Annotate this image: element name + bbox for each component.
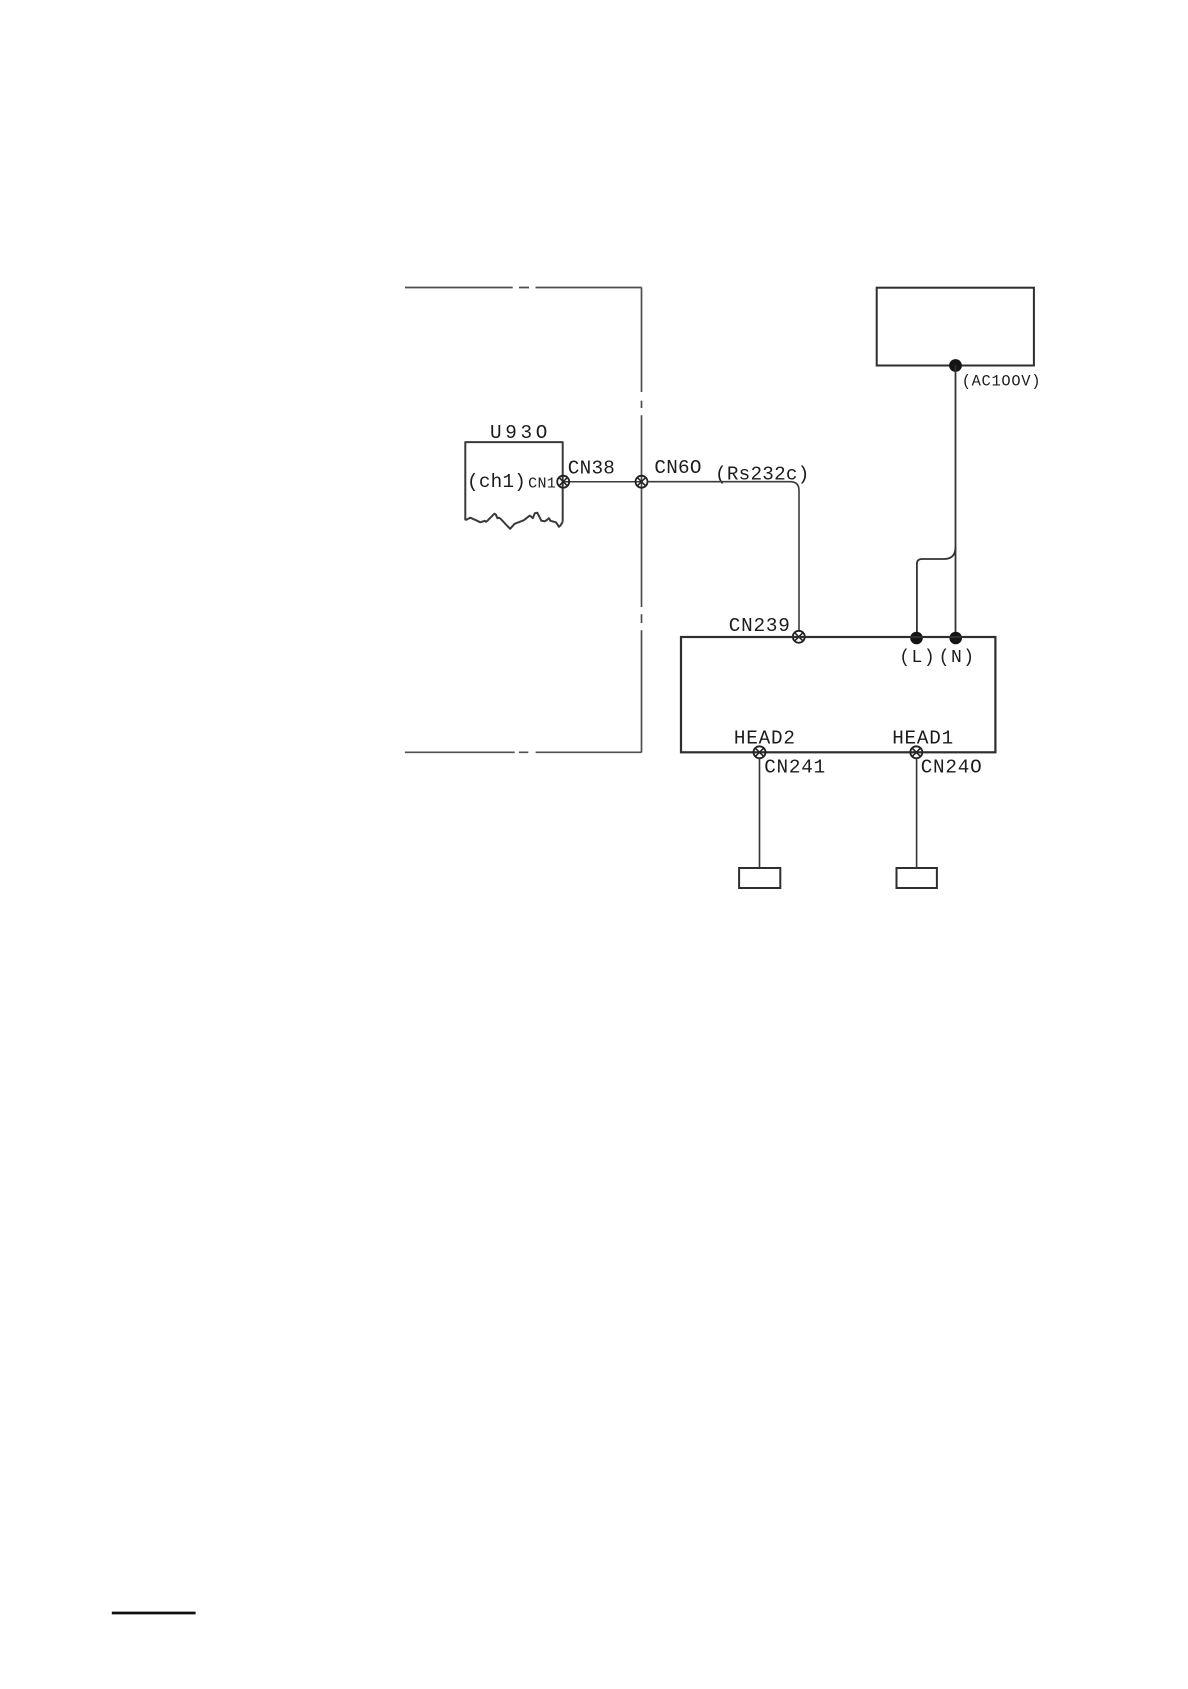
svg-text:(L): (L): [899, 648, 936, 668]
box U930 (torn bottom edge): [465, 442, 562, 529]
box power source (AC): [877, 288, 1034, 366]
connector HEAD2: [754, 746, 766, 758]
connector CN60: [636, 476, 648, 488]
box main board: [681, 637, 995, 752]
svg-text:U93O: U93O: [490, 422, 551, 444]
wire CN240 to head1 block: [916, 758, 918, 868]
bottom-left rule: [112, 1612, 196, 1615]
svg-text:CN239: CN239: [729, 615, 791, 637]
connector CN38: [557, 476, 569, 488]
svg-text:HEAD1: HEAD1: [892, 728, 954, 750]
svg-text:CN241: CN241: [764, 756, 826, 778]
wire branch to (L): [917, 547, 956, 637]
svg-text:(N): (N): [939, 648, 976, 668]
svg-text:(AC1OOV): (AC1OOV): [962, 372, 1041, 390]
junction dot N: [949, 632, 962, 645]
svg-text:CN38: CN38: [568, 458, 615, 480]
wire CN241 to head2 block: [759, 758, 761, 868]
connector CN239: [793, 631, 805, 643]
junction dot L: [910, 632, 923, 645]
dash-dot boundary right vertical: [641, 288, 643, 753]
junction dot AC100V: [949, 359, 962, 372]
dash-dot boundary bottom: [405, 751, 642, 753]
wire AC100V to (N): [955, 366, 957, 638]
svg-text:CN1: CN1: [528, 476, 556, 493]
svg-text:(ch1): (ch1): [467, 471, 526, 493]
box head2: [739, 868, 780, 888]
svg-text:CN24O: CN24O: [921, 756, 983, 778]
wire CN38 to CN60: [563, 481, 641, 483]
svg-text:HEAD2: HEAD2: [734, 728, 796, 750]
wire CN60 to CN239: [648, 482, 800, 631]
connector HEAD1: [910, 746, 922, 758]
dash-dot boundary top: [405, 287, 642, 289]
svg-text:CN6O: CN6O: [654, 457, 701, 479]
box head1: [897, 868, 937, 888]
